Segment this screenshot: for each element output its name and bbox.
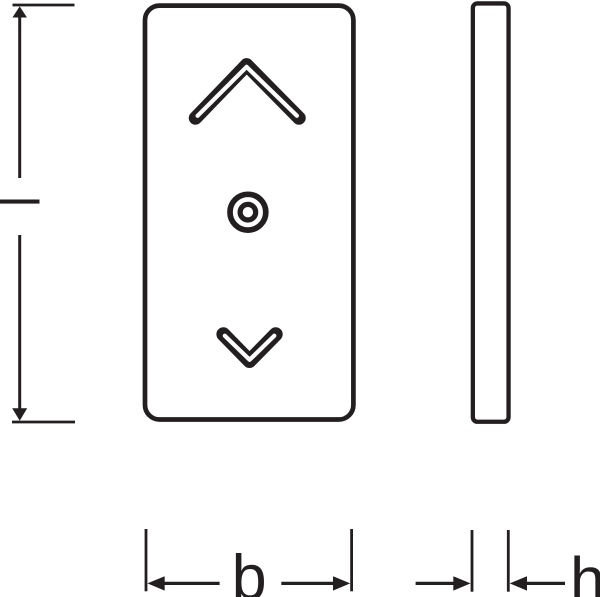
up chevron inner white slit xyxy=(198,67,297,116)
height dimension line lower segment xyxy=(18,235,21,412)
height dimension label dash (cropped at left edge) xyxy=(0,200,40,204)
width dimension left arrowhead xyxy=(147,576,164,590)
front view body outline xyxy=(145,6,353,420)
width dimension right extension line xyxy=(350,529,353,591)
width dimension left line segment xyxy=(163,582,220,585)
thickness dimension right line segment xyxy=(526,582,565,585)
svg-text:b: b xyxy=(232,543,267,597)
height dimension line upper segment xyxy=(18,14,21,178)
thickness dimension left line segment xyxy=(416,582,454,585)
width dimension right arrowhead xyxy=(333,576,350,590)
thickness dimension left arrowhead (pointing right) xyxy=(453,576,470,590)
thickness dimension left extension line xyxy=(471,530,474,592)
center button inner ring xyxy=(240,204,256,220)
center button outer ring xyxy=(230,194,266,230)
height dimension top extension tick xyxy=(13,4,75,7)
height dimension bottom arrowhead xyxy=(12,408,27,420)
width dimension right line segment xyxy=(281,582,335,585)
side view body outline xyxy=(473,3,509,421)
down chevron inner white slit xyxy=(225,336,274,360)
up chevron button outline xyxy=(196,65,300,118)
down chevron button outline xyxy=(223,334,275,361)
width dimension left extension line xyxy=(145,529,148,591)
height dimension top arrowhead xyxy=(12,6,27,17)
svg-text:h: h xyxy=(570,545,600,597)
thickness dimension right arrowhead (pointing left) xyxy=(510,576,527,590)
height dimension bottom extension tick xyxy=(12,421,75,424)
thickness dimension right extension line xyxy=(507,530,510,592)
